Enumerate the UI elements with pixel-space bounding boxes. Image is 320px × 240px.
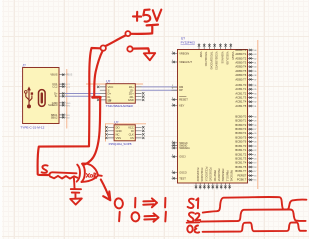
resistor (hand-drawn) <box>49 172 76 175</box>
switch common contact <box>101 45 106 50</box>
waveform OE <box>203 222 306 231</box>
mux U2 pins <box>100 87 142 100</box>
switch lever <box>106 35 126 46</box>
XOR gate (hand-drawn) <box>77 165 80 182</box>
ground (hand-drawn, switch) <box>144 53 155 60</box>
switch contact A (upper throw) <box>125 31 130 36</box>
room boundary (mux section, orange) <box>86 83 143 85</box>
MCU U1 top pins <box>199 43 231 49</box>
wire D+ (USB to mux) <box>66 95 101 97</box>
room boundary (MCU section, orange) <box>257 40 259 189</box>
wire (switch common to mux select, hand-drawn) <box>94 51 102 97</box>
wire DM (mux to MCU) <box>142 86 178 88</box>
truth table row 1: 0 1 => 1 <box>114 198 123 209</box>
switch contact B (lower throw) <box>127 46 132 51</box>
connector J1 USB-C body <box>23 68 59 124</box>
flash U3 body <box>114 125 135 141</box>
room boundary (flash section, orange) <box>105 124 146 142</box>
wire (switch common to S input, hand-drawn) <box>38 48 101 175</box>
label S (hand-drawn) <box>42 165 48 173</box>
arrow from gate to truth table <box>101 180 111 201</box>
room boundary (USB section, orange) <box>66 69 68 129</box>
wire DP (mux to MCU) <box>142 89 178 91</box>
USB trident symbol <box>26 89 32 105</box>
flash U3 pins <box>108 127 142 138</box>
XOR gate label <box>86 174 89 178</box>
label S2 (hand-drawn) <box>188 212 194 221</box>
mux U2 body <box>106 84 135 104</box>
waveform S1 <box>203 197 307 213</box>
capacitor (hand-drawn) <box>71 178 81 198</box>
MCU U1 right pins <box>248 50 254 180</box>
MCU U1 body <box>178 50 248 184</box>
+5V power bar <box>131 25 158 34</box>
+5V label (hand-drawn) <box>133 12 141 21</box>
wire from contact B to ground <box>133 48 149 53</box>
truth table row 2: 1 0 => 1 <box>118 212 121 221</box>
wire D- (USB to mux) <box>66 93 101 95</box>
connector J1 USB-C pins <box>59 75 66 118</box>
MCU U1 left pins <box>172 53 178 178</box>
label OE (hand-drawn, with overline) <box>187 221 200 223</box>
MCU U1 bottom pins <box>196 183 230 189</box>
USB-C receptacle pill <box>39 90 46 107</box>
label S1 (hand-drawn) <box>188 199 194 208</box>
waveform S2 <box>201 210 306 222</box>
ground (hand-drawn, capacitor) <box>70 199 82 205</box>
